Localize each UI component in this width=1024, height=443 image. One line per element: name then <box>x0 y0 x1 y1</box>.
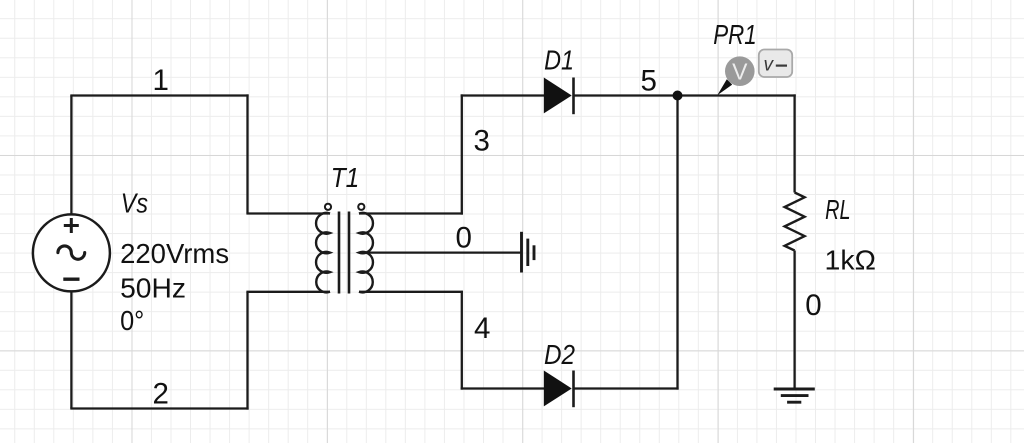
transformer T1 primary winding <box>316 213 330 292</box>
svg-text:0: 0 <box>456 222 472 255</box>
wire: node 4 vertical <box>461 291 463 390</box>
svg-text:0: 0 <box>805 289 821 322</box>
polarity dot secondary <box>358 204 364 210</box>
svg-text:2: 2 <box>153 378 169 411</box>
svg-text:50Hz: 50Hz <box>120 273 186 304</box>
wire: secondary top to node 3 corner <box>359 212 463 214</box>
ground (below RL) <box>774 389 815 402</box>
probe PR1 badge v- <box>759 50 792 78</box>
wire: node 2 horizontal <box>70 407 248 409</box>
wire: down to primary top <box>246 94 248 213</box>
transformer T1 secondary winding <box>359 213 373 292</box>
polarity dot primary <box>325 204 331 210</box>
svg-text:PR1: PR1 <box>713 19 756 50</box>
transformer T1 core <box>339 212 349 294</box>
resistor RL <box>785 193 805 251</box>
wire: source bottom down <box>70 292 72 409</box>
wire: into transformer primary bottom <box>246 291 330 293</box>
wire: down to resistor RL <box>793 94 795 192</box>
svg-text:220Vrms: 220Vrms <box>120 238 229 269</box>
wire: node 5 to right branch <box>677 94 796 96</box>
wire: D2 cathode to junction <box>574 387 679 389</box>
ground (center tap node 0) <box>522 232 535 273</box>
wire: junction vertical node 5 down <box>676 94 678 389</box>
svg-text:4: 4 <box>474 312 490 345</box>
junction node 5 dot <box>673 91 683 101</box>
svg-text:1: 1 <box>153 64 169 97</box>
svg-text:1kΩ: 1kΩ <box>825 245 876 276</box>
voltage source Vs <box>33 214 110 291</box>
svg-text:0°: 0° <box>120 305 144 336</box>
wire: to D1 anode <box>461 94 545 96</box>
wire: D1 cathode to node 5 <box>574 94 679 96</box>
wire: center tap to ground <box>359 251 522 253</box>
wire: up to primary bottom <box>246 292 248 410</box>
wire: secondary bottom to node 4 corner <box>359 291 463 293</box>
wire: resistor RL to ground <box>793 251 795 390</box>
svg-text:5: 5 <box>641 65 657 98</box>
svg-text:D1: D1 <box>544 44 574 75</box>
svg-text:v: v <box>764 54 775 75</box>
svg-text:D2: D2 <box>544 339 575 370</box>
svg-text:RL: RL <box>825 194 850 225</box>
svg-text:Vs: Vs <box>121 188 148 219</box>
svg-text:T1: T1 <box>331 162 360 193</box>
diode D1 <box>544 78 574 115</box>
wire: node 4 to D2 anode <box>461 387 545 389</box>
probe PR1 <box>717 56 754 95</box>
wire: node 3 vertical <box>461 94 463 214</box>
svg-text:V: V <box>732 59 748 85</box>
diode D2 <box>544 371 574 408</box>
svg-text:3: 3 <box>474 125 490 158</box>
wire: into transformer primary top <box>246 212 330 214</box>
wire: source top up <box>70 96 72 215</box>
wire: node 1 horizontal <box>70 94 248 96</box>
